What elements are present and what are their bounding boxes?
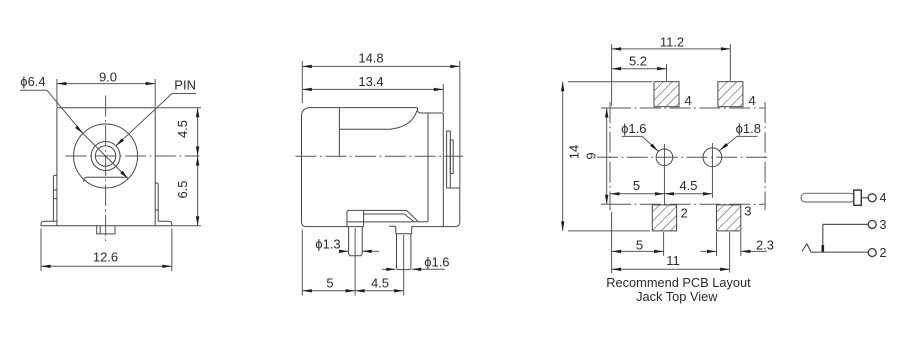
svg-text:5.2: 5.2 — [629, 54, 647, 69]
svg-text:4: 4 — [685, 93, 692, 108]
svg-text:Jack Top View: Jack Top View — [636, 289, 718, 304]
svg-text:14: 14 — [567, 145, 582, 159]
svg-text:12.6: 12.6 — [93, 249, 118, 264]
svg-text:11.2: 11.2 — [660, 35, 684, 50]
svg-text:4: 4 — [880, 191, 887, 205]
svg-text:5: 5 — [636, 238, 643, 253]
svg-text:5: 5 — [326, 276, 333, 291]
svg-text:ϕ1.6: ϕ1.6 — [424, 254, 449, 269]
svg-text:2: 2 — [880, 246, 887, 260]
svg-text:Recommend PCB Layout: Recommend PCB Layout — [606, 275, 751, 290]
svg-text:4.5: 4.5 — [371, 276, 389, 291]
svg-text:3: 3 — [880, 218, 887, 232]
svg-text:9: 9 — [584, 152, 599, 159]
svg-text:5: 5 — [633, 178, 640, 193]
svg-text:6.5: 6.5 — [175, 180, 190, 198]
svg-text:ϕ1.8: ϕ1.8 — [736, 121, 761, 136]
svg-text:4: 4 — [749, 93, 756, 108]
svg-text:4.5: 4.5 — [679, 178, 697, 193]
svg-text:13.4: 13.4 — [358, 74, 383, 89]
svg-text:ϕ6.4: ϕ6.4 — [20, 74, 45, 89]
svg-text:3: 3 — [744, 204, 751, 219]
svg-text:11: 11 — [666, 253, 680, 268]
svg-text:ϕ1.3: ϕ1.3 — [315, 236, 340, 251]
svg-text:PIN: PIN — [174, 77, 196, 92]
svg-text:ϕ1.6: ϕ1.6 — [621, 121, 646, 136]
svg-text:14.8: 14.8 — [358, 51, 383, 66]
svg-text:4.5: 4.5 — [175, 120, 190, 138]
svg-text:2: 2 — [681, 206, 688, 221]
svg-text:9.0: 9.0 — [99, 69, 117, 84]
svg-text:2.3: 2.3 — [756, 238, 774, 253]
